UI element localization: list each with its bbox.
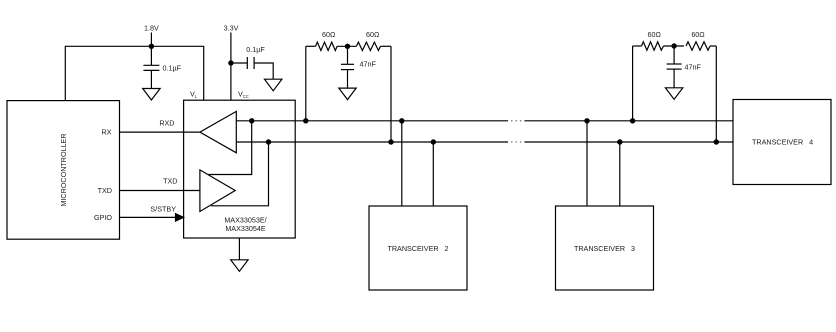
wire 1.8V stub xyxy=(150,33,152,47)
capacitor C3 47nF plates xyxy=(341,63,354,65)
resistor 60ohm (left termination, right) xyxy=(356,42,380,50)
wire junction to C1 xyxy=(150,46,152,65)
wire C1 to ground xyxy=(150,70,152,88)
wire left termination left leg to CANH xyxy=(305,46,307,121)
svg-text:60Ω: 60Ω xyxy=(691,30,705,39)
wire right termination right leg to CANL xyxy=(715,46,717,142)
ground (C3) xyxy=(339,88,356,100)
svg-text:GPIO: GPIO xyxy=(94,213,112,222)
transceiver 4 box xyxy=(733,100,831,185)
resistor 60ohm (left termination, left) xyxy=(316,42,338,50)
svg-text:MAX33054E: MAX33054E xyxy=(225,224,266,233)
wire 3.3V to VCC xyxy=(230,33,232,101)
node junction CANL right termination xyxy=(714,139,719,144)
svg-text:VCC: VCC xyxy=(238,90,249,99)
svg-text:TRANSCEIVER 2: TRANSCEIVER 2 xyxy=(387,244,448,253)
node junction left termination center xyxy=(345,44,350,49)
svg-text:47nF: 47nF xyxy=(685,63,702,72)
left termination network top wire xyxy=(306,45,391,47)
node junction CANH right termination xyxy=(630,118,635,123)
wire C3 to ground xyxy=(347,70,349,89)
node junction CANH transceiver 2 xyxy=(399,118,404,123)
wire junction to C3 xyxy=(347,46,349,64)
svg-text:TXD: TXD xyxy=(98,186,112,195)
svg-text:60Ω: 60Ω xyxy=(322,30,336,39)
node junction CANH receiver input xyxy=(249,118,254,123)
ground (transceiver GND pin) xyxy=(238,238,240,260)
right termination network top wire xyxy=(633,45,717,47)
svg-text:60Ω: 60Ω xyxy=(648,30,662,39)
bus break continuation dots CANH xyxy=(511,120,521,122)
op-amp U1b driver xyxy=(200,170,235,212)
svg-text:60Ω: 60Ω xyxy=(366,30,380,39)
node junction right termination center xyxy=(671,43,676,48)
wire C4 to ground xyxy=(673,69,675,88)
capacitor C4 47nF plates xyxy=(667,63,682,65)
svg-text:MICROCONTROLLER: MICROCONTROLLER xyxy=(59,133,68,206)
node junction 3.3V xyxy=(228,60,233,65)
svg-text:1.8V: 1.8V xyxy=(144,24,159,33)
resistor 60ohm (right termination, left) xyxy=(642,42,664,50)
svg-text:RXD: RXD xyxy=(159,119,174,128)
wire CANL driver output xyxy=(211,142,269,206)
node junction CANL left termination xyxy=(388,139,393,144)
wire junction to C4 xyxy=(673,46,675,64)
node junction CANH transceiver 3 xyxy=(584,118,589,123)
svg-text:RX: RX xyxy=(102,128,112,137)
svg-text:0.1µF: 0.1µF xyxy=(163,63,182,72)
svg-text:VL: VL xyxy=(190,90,198,99)
svg-text:0.1µF: 0.1µF xyxy=(246,45,265,54)
op-amp U1a receiver xyxy=(200,111,236,152)
resistor 60ohm (right termination, right) xyxy=(686,42,710,50)
wire CANH bus left segment xyxy=(236,120,508,122)
ground (C1) xyxy=(143,89,160,101)
svg-text:47nF: 47nF xyxy=(360,59,377,68)
wire right termination left leg to CANH xyxy=(632,46,634,121)
transceiver U1 MAX33053E/MAX33054E box xyxy=(184,100,296,238)
node junction 1.8V xyxy=(149,44,154,49)
wire transceiver 3 CANH stub xyxy=(586,121,588,206)
node junction CANL transceiver 2 xyxy=(431,139,436,144)
svg-text:TRANSCEIVER 4: TRANSCEIVER 4 xyxy=(752,138,813,147)
microcontroller box xyxy=(7,101,120,240)
wire CANH bus right segment xyxy=(524,120,733,122)
ground (C4) xyxy=(665,88,682,100)
svg-text:S/STBY: S/STBY xyxy=(150,204,176,213)
wire C2 to ground xyxy=(254,63,273,79)
wire RX to RXD xyxy=(120,131,200,133)
ground (C2) xyxy=(265,79,282,91)
svg-text:TXD: TXD xyxy=(163,177,177,186)
wire GPIO to S/STBY xyxy=(120,216,178,218)
wire TXD to TXD xyxy=(120,190,200,192)
wire transceiver 2 CANH stub xyxy=(401,121,403,206)
wire CANL bus right segment xyxy=(524,141,733,143)
wire CANH driver output xyxy=(208,121,252,175)
wire transceiver 3 CANL stub xyxy=(619,142,621,206)
node junction CANL transceiver 3 xyxy=(617,139,622,144)
node junction CANH left termination xyxy=(303,118,308,123)
wire 1.8V rail horizontal xyxy=(65,46,203,100)
transceiver 2 box xyxy=(369,206,467,290)
wire left termination right leg to CANL xyxy=(390,46,392,142)
wire transceiver 2 CANL stub xyxy=(432,142,434,206)
node junction CANL receiver input xyxy=(266,139,271,144)
capacitor C2 0.1uF plates xyxy=(246,57,248,69)
capacitor C1 0.1uF plates xyxy=(143,64,159,66)
transceiver 3 box xyxy=(556,206,654,290)
wire CANL bus left segment xyxy=(236,141,508,143)
arrowhead into S/STBY pin xyxy=(176,214,184,221)
svg-text:3.3V: 3.3V xyxy=(224,24,239,33)
svg-text:TRANSCEIVER 3: TRANSCEIVER 3 xyxy=(574,244,635,253)
bus break continuation dots CANL xyxy=(511,141,521,143)
wire junction to C2 xyxy=(231,62,247,64)
